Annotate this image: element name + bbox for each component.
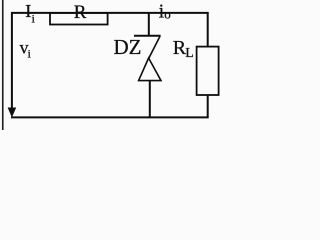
zener DZ cathode bar	[134, 35, 161, 37]
zener DZ slanted cathode stroke	[149, 36, 160, 58]
svg-text:o: o	[164, 7, 171, 22]
svg-text:R: R	[74, 2, 87, 23]
wire: bottom horizontal	[11, 116, 209, 118]
resistor R box	[50, 13, 108, 25]
arrowhead of v_i (points down to bottom wire)	[8, 108, 17, 118]
resistor R_L box	[197, 47, 219, 95]
svg-text:i: i	[28, 46, 32, 60]
wire: top horizontal	[11, 12, 209, 14]
left page border line	[2, 0, 4, 130]
wire: left branch vertical (v_i arrow stem)	[11, 12, 13, 110]
wire: zener branch top	[148, 12, 150, 37]
zener DZ anode triangle	[139, 58, 161, 81]
wire: zener branch bottom	[149, 81, 151, 118]
wire: right branch top	[207, 12, 209, 47]
svg-text:DZ: DZ	[114, 35, 142, 59]
svg-text:I: I	[25, 1, 31, 21]
wire: right branch bottom	[207, 95, 209, 118]
svg-text:L: L	[185, 46, 194, 61]
